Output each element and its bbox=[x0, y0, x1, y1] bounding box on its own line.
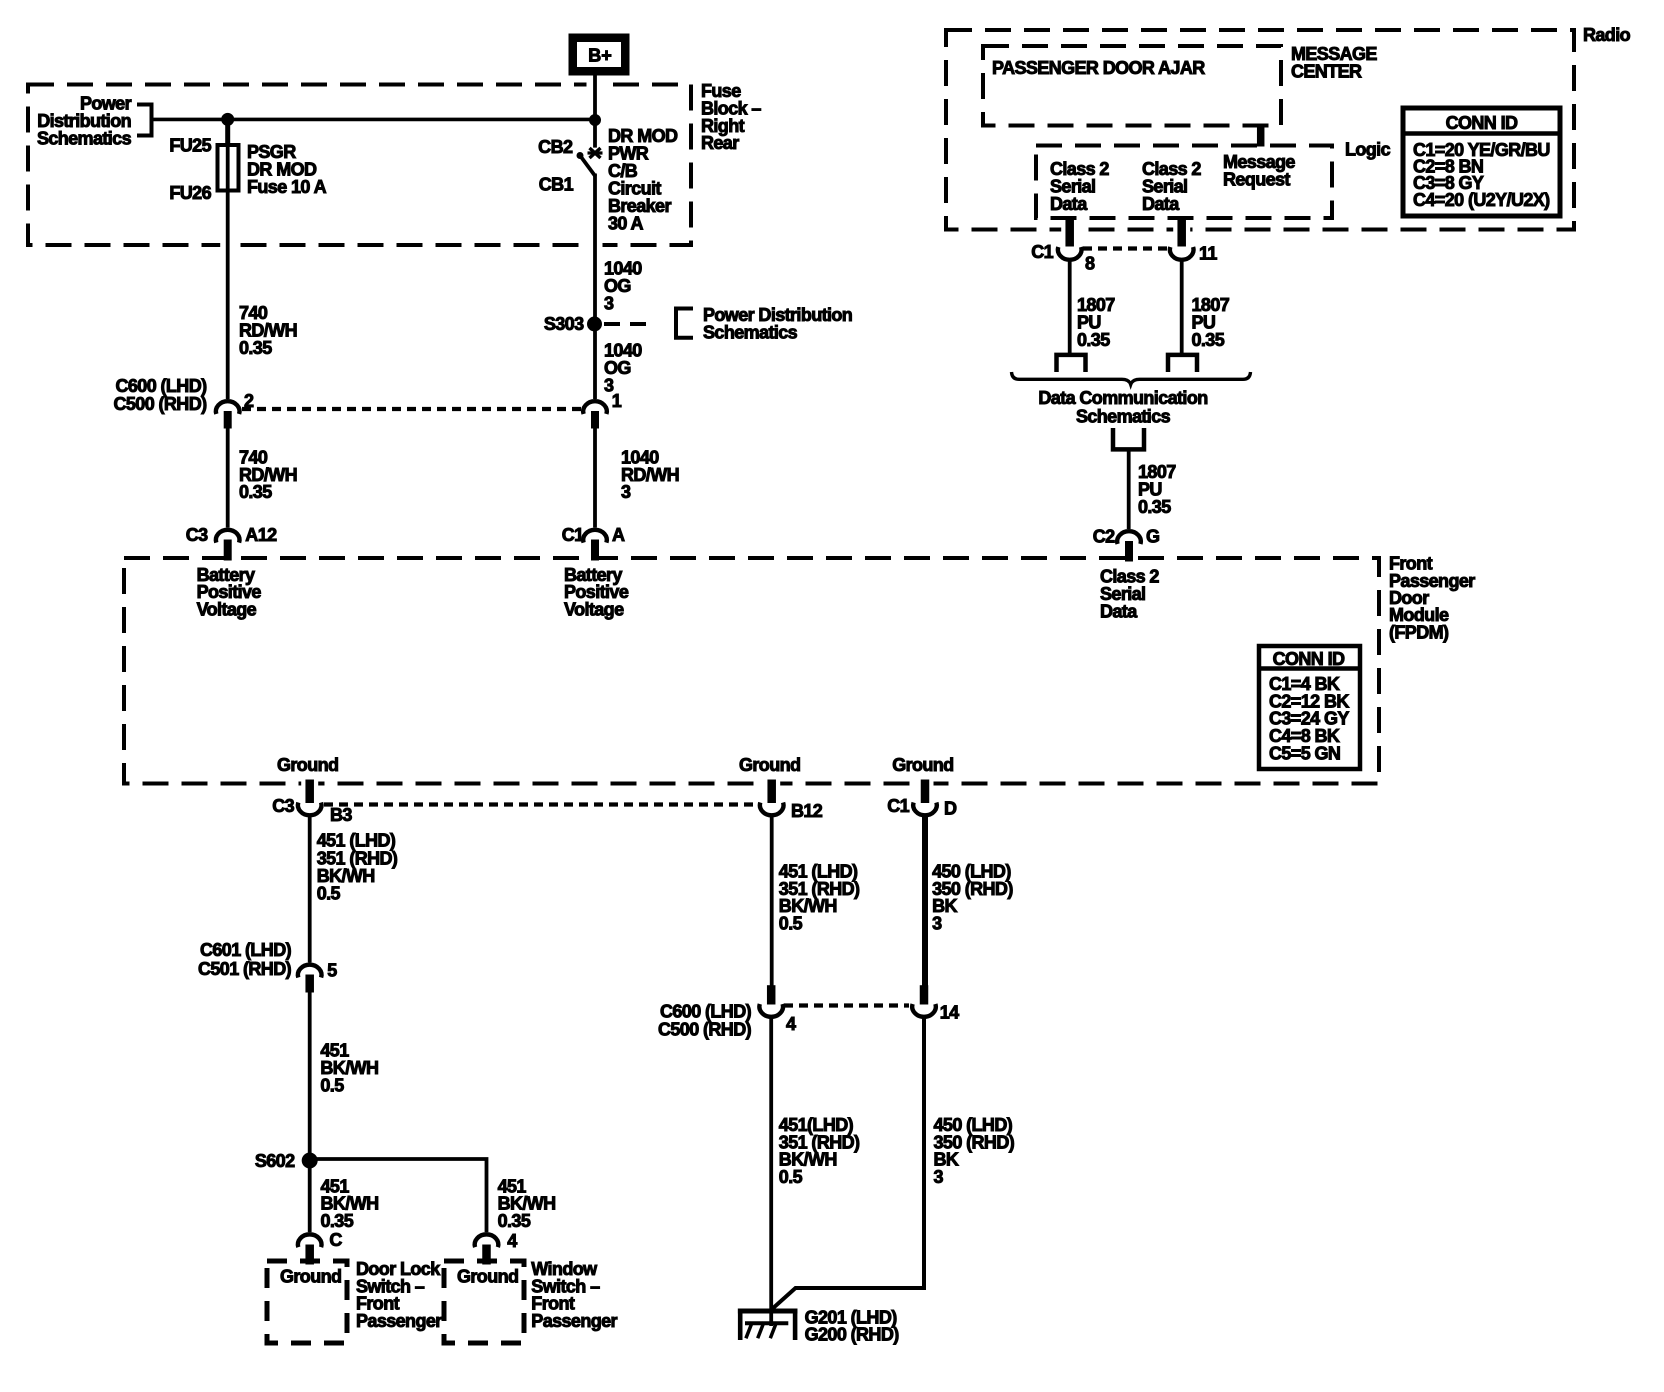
stub FPDM pin B3 bbox=[301, 779, 318, 788]
svg-text:0.5: 0.5 bbox=[320, 1075, 344, 1095]
svg-text:B3: B3 bbox=[330, 805, 352, 825]
svg-text:Data Communication: Data Communication bbox=[1038, 388, 1207, 408]
svg-text:C500 (RHD): C500 (RHD) bbox=[113, 394, 207, 414]
svg-text:Voltage: Voltage bbox=[564, 599, 624, 619]
svg-text:Ground: Ground bbox=[739, 755, 800, 775]
svg-text:C600 (LHD): C600 (LHD) bbox=[115, 376, 207, 396]
logic dashed box bbox=[1036, 146, 1332, 219]
svg-text:C1: C1 bbox=[887, 796, 909, 816]
svg-text:S303: S303 bbox=[544, 314, 584, 334]
wire 740 RD/WH from fuse to C600 bbox=[220, 241, 235, 250]
svg-text:Data: Data bbox=[1100, 601, 1138, 621]
svg-text:1: 1 bbox=[612, 391, 622, 411]
svg-text:C1: C1 bbox=[562, 525, 584, 545]
connector C601 pin 5 bbox=[298, 965, 322, 978]
wire branch S602 to window switch bbox=[310, 1159, 487, 1232]
svg-text:Ground: Ground bbox=[892, 755, 953, 775]
svg-text:Voltage: Voltage bbox=[197, 599, 257, 619]
FPDM CONN ID table bbox=[1259, 646, 1360, 769]
circuit breaker CB1/CB2 contact star bbox=[590, 148, 601, 158]
fuse FU25/FU26 PSGR DR MOD bbox=[218, 145, 239, 191]
svg-text:Data: Data bbox=[1142, 194, 1180, 214]
svg-text:0.5: 0.5 bbox=[779, 1167, 803, 1187]
svg-text:0.5: 0.5 bbox=[779, 914, 803, 934]
svg-text:Data: Data bbox=[1050, 194, 1088, 214]
stub C600 pin 4 bbox=[767, 986, 775, 1004]
off-page receptacle pin 8 bbox=[1057, 355, 1086, 372]
connector C1 pin A bbox=[587, 554, 604, 563]
svg-text:11: 11 bbox=[1199, 244, 1217, 264]
wire 1807 PU to FPDM G bbox=[1127, 450, 1131, 529]
svg-text:C2: C2 bbox=[1093, 527, 1115, 547]
svg-text:B+: B+ bbox=[588, 46, 612, 66]
svg-text:C601 (LHD): C601 (LHD) bbox=[200, 940, 292, 960]
svg-text:C3: C3 bbox=[272, 796, 294, 816]
wire 451 BK/WH from B3 bbox=[308, 816, 312, 963]
splice S303 bbox=[588, 317, 602, 331]
wire 451 BK/WH to G201 bbox=[769, 1017, 773, 1326]
svg-text:Schematics: Schematics bbox=[1076, 406, 1171, 426]
dashed connector tie radio C1 bbox=[1083, 246, 1168, 250]
wire from feed to fuse FU25 bbox=[225, 119, 230, 146]
svg-text:Logic: Logic bbox=[1345, 140, 1391, 160]
svg-text:C: C bbox=[329, 1230, 342, 1250]
svg-text:3: 3 bbox=[604, 293, 614, 313]
wire 450 BK from D bbox=[922, 816, 928, 986]
wire horizontal feed from power distribution bbox=[152, 118, 596, 122]
svg-text:(FPDM): (FPDM) bbox=[1389, 622, 1449, 642]
connector C3 pin A12 bbox=[219, 554, 236, 563]
svg-text:CB1: CB1 bbox=[539, 175, 574, 195]
svg-text:D: D bbox=[944, 799, 957, 819]
dashed connector tie ground bbox=[324, 802, 759, 806]
svg-text:FU25: FU25 bbox=[169, 135, 211, 155]
svg-text:8: 8 bbox=[1085, 254, 1095, 274]
svg-text:Ground: Ground bbox=[457, 1267, 518, 1287]
svg-text:B12: B12 bbox=[791, 801, 823, 821]
power symbol B+ terminal bbox=[569, 34, 629, 75]
svg-text:Passenger: Passenger bbox=[531, 1311, 617, 1331]
svg-text:FU26: FU26 bbox=[169, 183, 211, 203]
connector C600 pin 1 bbox=[583, 401, 607, 414]
connector C1 pin D bbox=[913, 803, 937, 816]
svg-text:Fuse 10 A: Fuse 10 A bbox=[247, 177, 327, 197]
svg-text:C3: C3 bbox=[186, 525, 208, 545]
svg-text:CENTER: CENTER bbox=[1291, 62, 1362, 82]
ground G201/G200 symbol bbox=[738, 1308, 798, 1313]
dashed connector tie C600 lower bbox=[784, 1003, 909, 1007]
connector door lock pin C bbox=[302, 1257, 317, 1266]
svg-text:Request: Request bbox=[1223, 170, 1290, 190]
door lock switch ground dashed box bbox=[267, 1261, 347, 1343]
svg-text:G: G bbox=[1146, 527, 1159, 547]
connector FPDM pin B12 bbox=[760, 803, 784, 816]
svg-text:0.35: 0.35 bbox=[1192, 330, 1225, 350]
connector C600 pin 14 bbox=[912, 1004, 936, 1017]
svg-text:A12: A12 bbox=[245, 525, 277, 545]
svg-text:CB2: CB2 bbox=[538, 137, 573, 157]
wire 740 RD/WH to FPDM A12 bbox=[226, 428, 230, 528]
svg-text:CONN ID: CONN ID bbox=[1446, 113, 1518, 133]
wire 1040 OG from breaker to S303 to C600 bbox=[588, 241, 603, 250]
wire 1807 PU from radio pin 8 bbox=[1068, 260, 1072, 353]
wire 1807 PU from radio pin 11 bbox=[1180, 260, 1184, 353]
passenger door ajar dashed box bbox=[983, 46, 1281, 126]
svg-text:Ground: Ground bbox=[277, 755, 338, 775]
svg-text:Ground: Ground bbox=[280, 1267, 341, 1287]
wire B+ drop into fuse block bbox=[587, 80, 604, 89]
svg-text:0.35: 0.35 bbox=[239, 482, 272, 502]
wire 450 BK to G201 bbox=[772, 1017, 925, 1310]
svg-text:0.35: 0.35 bbox=[321, 1211, 354, 1231]
connector C2 pin G bbox=[1121, 554, 1138, 563]
stub radio C1 pin 11 bbox=[1173, 225, 1190, 234]
svg-text:C1: C1 bbox=[1031, 242, 1053, 262]
svg-text:0.35: 0.35 bbox=[1138, 497, 1171, 517]
connector C3 pin B3 bbox=[298, 803, 322, 816]
wire 451 BK/WH from B12 bbox=[770, 816, 774, 986]
svg-text:C500 (RHD): C500 (RHD) bbox=[658, 1020, 752, 1040]
bracket to Power Distribution Schematics bbox=[137, 105, 152, 136]
radio CONN ID table bbox=[1403, 108, 1560, 216]
connector C600 pin 2 bbox=[216, 401, 240, 414]
junction node at circuit breaker tap bbox=[590, 115, 601, 126]
svg-text:3: 3 bbox=[934, 1167, 944, 1187]
fuse block dashed box bbox=[28, 85, 691, 246]
stub C600 pin 14 bbox=[920, 986, 928, 1004]
connector radio C1 pin 8 bbox=[1058, 247, 1082, 260]
svg-text:5: 5 bbox=[327, 961, 337, 981]
stub radio C1 pin 8 bbox=[1061, 225, 1078, 234]
svg-text:14: 14 bbox=[940, 1003, 959, 1023]
connector window switch pin 4 bbox=[479, 1257, 494, 1266]
dashed connector tie C600 bbox=[242, 407, 586, 411]
svg-text:0.35: 0.35 bbox=[1077, 330, 1110, 350]
svg-text:0.35: 0.35 bbox=[498, 1211, 531, 1231]
brace data communication bbox=[1012, 372, 1251, 385]
svg-text:A: A bbox=[612, 525, 625, 545]
connector C600 pin 4 bbox=[759, 1004, 783, 1017]
svg-text:0.35: 0.35 bbox=[239, 338, 272, 358]
svg-text:Radio: Radio bbox=[1583, 25, 1631, 45]
radio dashed box bbox=[946, 30, 1574, 230]
svg-text:CONN ID: CONN ID bbox=[1273, 649, 1345, 669]
stub FPDM pin B12 bbox=[763, 779, 780, 788]
circuit breaker lever bbox=[577, 153, 583, 159]
dashed reference line from S303 bbox=[604, 322, 651, 326]
svg-text:C4=20 (U2Y/U2X): C4=20 (U2Y/U2X) bbox=[1413, 190, 1550, 210]
svg-text:4: 4 bbox=[507, 1231, 517, 1251]
splice S602 bbox=[302, 1153, 317, 1168]
svg-text:S602: S602 bbox=[255, 1151, 295, 1171]
window switch ground dashed box bbox=[444, 1261, 524, 1343]
bracket to Power Distribution Schematics (right) bbox=[676, 309, 693, 338]
junction node at fuse FU25 tap bbox=[222, 113, 234, 125]
wire 1040 RD/WH to FPDM A bbox=[593, 428, 597, 528]
svg-text:G200 (RHD): G200 (RHD) bbox=[805, 1325, 900, 1345]
FPDM dashed box bbox=[124, 558, 1379, 784]
svg-text:Schematics: Schematics bbox=[703, 323, 798, 343]
svg-text:Passenger: Passenger bbox=[356, 1311, 442, 1331]
off-page receptacle pin 11 bbox=[1168, 355, 1197, 372]
svg-text:30 A: 30 A bbox=[608, 214, 644, 234]
svg-text:3: 3 bbox=[621, 482, 631, 502]
wire 451 BK/WH to S602 bbox=[308, 992, 312, 1232]
stub message request link bbox=[1257, 126, 1264, 147]
stub FPDM pin D bbox=[917, 779, 934, 788]
svg-text:PASSENGER DOOR AJAR: PASSENGER DOOR AJAR bbox=[992, 58, 1205, 78]
connector radio C1 pin 11 bbox=[1170, 247, 1194, 260]
svg-text:Schematics: Schematics bbox=[37, 128, 132, 148]
off-page source bracket bbox=[1113, 428, 1144, 449]
svg-text:3: 3 bbox=[932, 914, 942, 934]
svg-text:C5=5 GN: C5=5 GN bbox=[1269, 743, 1340, 763]
svg-text:C501 (RHD): C501 (RHD) bbox=[198, 959, 292, 979]
svg-text:Rear: Rear bbox=[701, 133, 739, 153]
wire through fuse bbox=[226, 145, 230, 191]
svg-text:0.5: 0.5 bbox=[317, 884, 341, 904]
svg-text:4: 4 bbox=[786, 1014, 796, 1034]
